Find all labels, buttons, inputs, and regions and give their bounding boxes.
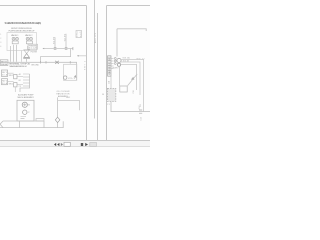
bus wire [0, 62, 77, 80]
toolbar next icon [61, 143, 63, 146]
ladder pin 1 [23, 73, 30, 75]
bus tick 2 [45, 61, 47, 64]
wire minibox2 to ladder [17, 84, 23, 86]
pin circle 3 [114, 63, 116, 65]
off-page stub wire [77, 55, 87, 57]
toolbar [0, 140, 150, 147]
connector diamond [55, 117, 60, 122]
fan wire 2 [121, 62, 140, 95]
right inner box left edge [116, 29, 118, 57]
filter base [23, 57, 30, 59]
wire V1 down b [16, 45, 18, 62]
toolbar page input box [64, 142, 70, 146]
row1 minibox [14, 74, 17, 78]
wire K2 to minibox2 [8, 81, 14, 83]
row2 minibox [14, 83, 17, 87]
valve V2 dots [26, 37, 29, 40]
pump motor M1 [22, 102, 27, 107]
wire left drop [9, 46, 11, 62]
toolbar prev icon 2 [57, 143, 59, 146]
wire gap B [97, 13, 99, 140]
harness bar [108, 56, 111, 76]
pump inner marks [21, 117, 27, 119]
relay box K2 [2, 79, 8, 85]
wire minibox to ladder [17, 76, 23, 78]
left frame edge box [76, 31, 82, 38]
cylinder notch [36, 119, 44, 121]
solenoid circle small [117, 63, 120, 66]
connector tick S1 [54, 47, 57, 49]
filter hourglass upper [24, 50, 30, 54]
relay box K1 [2, 70, 8, 77]
fan wire 3 [121, 65, 137, 91]
gauge G2 [28, 44, 38, 49]
toolbar zoom icon [85, 143, 88, 146]
bus tick 3 [69, 61, 71, 64]
pump box [17, 100, 34, 121]
valve V2 coil b [30, 37, 33, 40]
filter hourglass lower [24, 54, 30, 58]
horizontal wire W1 [44, 48, 73, 50]
branch wire vertical [57, 97, 59, 127]
bottom L wire [111, 101, 150, 111]
gray component wire top [110, 76, 112, 88]
small box under diagonal [120, 86, 127, 92]
pump motor M1 mark [23, 103, 26, 106]
inline connector on bottom wire [139, 110, 142, 113]
wire filter stem [26, 58, 28, 62]
valve V2 coil a [26, 37, 29, 40]
pump drop wire [19, 121, 21, 128]
diagonal arrow [131, 77, 135, 80]
wire gap A [94, 0, 96, 119]
valve V1 dots [12, 37, 15, 40]
sheet frame left: top border [0, 5, 87, 7]
cylinder top edge [3, 120, 44, 122]
toolbar divider [81, 143, 83, 146]
check valve circle [63, 76, 66, 79]
pin circle 2 [114, 60, 116, 62]
toolbar prev icon [54, 143, 56, 146]
wire V1 down a [13, 45, 15, 62]
valve V1 coil b [16, 37, 19, 40]
bus tick 1 [40, 61, 42, 64]
sheet frame right: left border [106, 6, 108, 141]
bottom long wire [0, 121, 63, 127]
pin circle 1 [114, 58, 116, 60]
minibox2 drop wire [14, 87, 16, 92]
solenoid circle big [117, 58, 121, 62]
cylinder right edge [43, 121, 45, 128]
wire W1 arrow [42, 48, 44, 50]
leader wire right [58, 101, 80, 111]
cylinder nose [0, 121, 3, 128]
ladder pin 5 [23, 85, 30, 87]
wire V2 into filter a [27, 46, 29, 50]
ladder collector wire [20, 74, 30, 92]
solenoid drop wire [119, 67, 121, 86]
valve V1 coil a [12, 37, 15, 40]
ladder pin 3 [23, 79, 30, 81]
harness bar hatch [108, 58, 111, 73]
ladder pin 4 [23, 82, 30, 84]
valve V2 body [26, 41, 32, 44]
fan wire 1 [121, 60, 144, 112]
enclosure box [7, 33, 37, 51]
off-page stub arrow [77, 55, 79, 57]
harness pin ticks [111, 59, 114, 69]
wire W1 end tick [72, 47, 74, 50]
sheet frame right: top border [107, 5, 151, 7]
dashed box right [64, 64, 77, 80]
terminal box left [0, 60, 8, 66]
diagonal wire [128, 74, 138, 86]
wire W2 corner [41, 49, 71, 63]
wire V2 drop left [21, 51, 23, 62]
toolbar zoom box [90, 143, 97, 147]
ladder pin 2 [23, 76, 30, 78]
sheet frame left: right border [86, 6, 88, 141]
wire stub S1 [54, 37, 56, 48]
valve V1 body [12, 41, 18, 44]
pump motor M2 [23, 110, 27, 114]
connector tick S2 [65, 47, 68, 49]
right inner box top edge [117, 29, 146, 31]
bus connector bowtie [55, 61, 59, 64]
check valve arrow [74, 75, 77, 78]
wire stub S2 [65, 34, 67, 49]
wire K1 to minibox [8, 72, 14, 74]
gray component box [107, 88, 115, 101]
